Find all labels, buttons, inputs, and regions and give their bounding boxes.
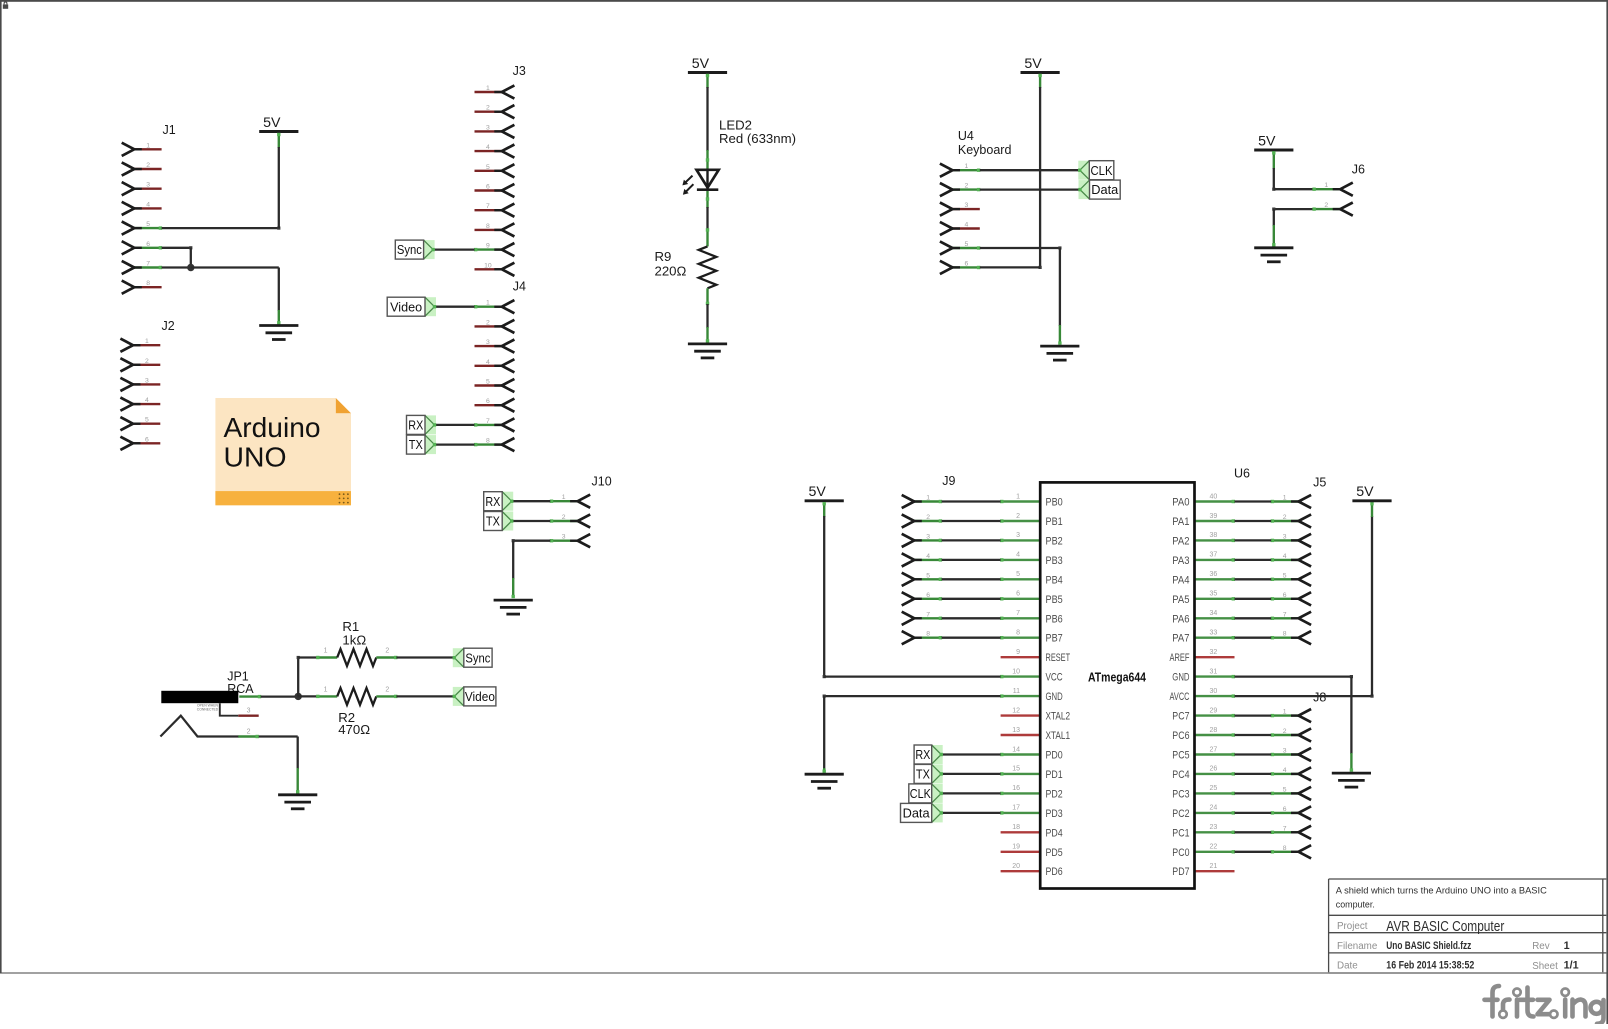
svg-text:Date: Date: [1337, 961, 1358, 972]
svg-text:U4: U4: [958, 129, 974, 143]
svg-text:6: 6: [1283, 592, 1287, 599]
svg-text:470Ω: 470Ω: [338, 722, 370, 737]
svg-text:Data: Data: [903, 806, 931, 821]
svg-text:14: 14: [1012, 746, 1020, 753]
svg-text:4: 4: [1283, 767, 1287, 774]
svg-text:4: 4: [926, 553, 930, 560]
svg-text:4: 4: [486, 144, 490, 151]
svg-text:2: 2: [926, 514, 930, 521]
svg-text:3: 3: [247, 708, 251, 715]
svg-text:6: 6: [146, 241, 150, 248]
svg-text:21: 21: [1210, 863, 1218, 870]
svg-text:1: 1: [1283, 709, 1287, 716]
svg-text:17: 17: [1012, 805, 1020, 812]
svg-text:3: 3: [926, 533, 930, 540]
svg-text:Video: Video: [390, 299, 422, 314]
svg-text:Red (633nm): Red (633nm): [719, 131, 796, 146]
svg-text:8: 8: [1283, 845, 1287, 852]
svg-text:5V: 5V: [692, 56, 710, 72]
svg-text:UNO: UNO: [224, 442, 287, 473]
svg-text:6: 6: [1016, 591, 1020, 598]
svg-text:PA7: PA7: [1172, 633, 1189, 645]
svg-text:PB5: PB5: [1046, 594, 1063, 606]
svg-text:1: 1: [145, 338, 149, 345]
svg-text:1: 1: [926, 495, 930, 502]
svg-text:Video: Video: [465, 689, 495, 704]
svg-text:13: 13: [1012, 727, 1020, 734]
svg-text:8: 8: [1016, 630, 1020, 637]
svg-text:1: 1: [486, 300, 490, 307]
svg-text:5V: 5V: [1356, 484, 1374, 500]
svg-text:PD4: PD4: [1046, 827, 1063, 839]
svg-text:2: 2: [385, 686, 389, 693]
svg-text:5: 5: [486, 164, 490, 171]
svg-text:RX: RX: [915, 747, 930, 762]
svg-text:PD5: PD5: [1046, 847, 1063, 859]
svg-text:3: 3: [486, 339, 490, 346]
svg-text:34: 34: [1210, 610, 1218, 617]
svg-text:35: 35: [1210, 591, 1218, 598]
svg-text:7: 7: [486, 203, 490, 210]
svg-text:5V: 5V: [809, 484, 827, 500]
svg-text:3: 3: [146, 182, 150, 189]
svg-text:25: 25: [1210, 785, 1218, 792]
svg-text:PD1: PD1: [1046, 769, 1063, 781]
svg-text:12: 12: [1012, 707, 1020, 714]
svg-text:AVR BASIC Computer: AVR BASIC Computer: [1386, 919, 1504, 935]
svg-text:32: 32: [1210, 649, 1218, 656]
svg-text:2: 2: [145, 358, 149, 365]
svg-text:24: 24: [1210, 805, 1218, 812]
svg-text:RX: RX: [408, 418, 423, 433]
svg-text:PC4: PC4: [1172, 769, 1189, 781]
svg-text:PA3: PA3: [1172, 555, 1189, 567]
svg-text:Project: Project: [1337, 921, 1368, 932]
svg-text:PD0: PD0: [1046, 750, 1063, 762]
svg-text:8: 8: [486, 223, 490, 230]
svg-text:8: 8: [926, 631, 930, 638]
svg-text:ATmega644: ATmega644: [1088, 671, 1146, 685]
svg-text:1: 1: [562, 494, 566, 501]
svg-text:5: 5: [1283, 786, 1287, 793]
svg-text:PA0: PA0: [1172, 497, 1189, 509]
svg-text:1: 1: [146, 142, 150, 149]
svg-text:11: 11: [1013, 688, 1020, 695]
svg-text:J5: J5: [1313, 475, 1326, 489]
svg-text:23: 23: [1210, 824, 1218, 831]
svg-text:PC6: PC6: [1172, 730, 1189, 742]
svg-text:5V: 5V: [1024, 56, 1042, 72]
svg-text:AVCC: AVCC: [1170, 691, 1190, 703]
svg-text:2: 2: [486, 105, 490, 112]
svg-text:J6: J6: [1352, 163, 1365, 177]
svg-text:5V: 5V: [263, 115, 281, 131]
svg-text:1: 1: [1283, 495, 1287, 502]
svg-text:PB3: PB3: [1046, 555, 1063, 567]
svg-text:PD6: PD6: [1046, 866, 1063, 878]
svg-text:U6: U6: [1234, 467, 1250, 481]
svg-text:6: 6: [486, 398, 490, 405]
svg-text:PB6: PB6: [1046, 613, 1063, 625]
svg-text:Sync: Sync: [397, 242, 422, 257]
svg-text:J4: J4: [513, 280, 526, 294]
svg-text:PC0: PC0: [1172, 847, 1189, 859]
svg-text:PD3: PD3: [1046, 808, 1063, 820]
svg-text:7: 7: [1283, 611, 1287, 618]
svg-text:3: 3: [965, 202, 969, 209]
svg-text:1: 1: [324, 648, 328, 655]
svg-text:36: 36: [1210, 571, 1218, 578]
svg-text:computer.: computer.: [1336, 900, 1375, 910]
svg-text:RX: RX: [485, 494, 500, 509]
svg-text:PC3: PC3: [1172, 788, 1189, 800]
svg-text:5V: 5V: [1258, 133, 1276, 149]
svg-text:7: 7: [1283, 825, 1287, 832]
svg-text:38: 38: [1210, 532, 1218, 539]
svg-text:6: 6: [145, 436, 149, 443]
svg-text:6: 6: [486, 184, 490, 191]
svg-text:1: 1: [1016, 493, 1020, 500]
svg-text:GND: GND: [1172, 672, 1189, 684]
svg-text:TX: TX: [409, 437, 423, 452]
svg-text:5: 5: [926, 572, 930, 579]
svg-text:2: 2: [486, 319, 490, 326]
svg-text:CONNECTED: CONNECTED: [197, 708, 219, 712]
svg-text:R9: R9: [655, 249, 672, 264]
svg-text:18: 18: [1012, 824, 1020, 831]
svg-text:PB2: PB2: [1046, 535, 1063, 547]
svg-text:5: 5: [486, 379, 490, 386]
svg-text:Keyboard: Keyboard: [958, 143, 1012, 157]
svg-text:2: 2: [247, 728, 251, 735]
svg-text:7: 7: [146, 261, 150, 268]
svg-text:TX: TX: [916, 767, 930, 782]
svg-text:10: 10: [484, 262, 492, 269]
svg-text:4: 4: [965, 222, 969, 229]
svg-text:30: 30: [1210, 688, 1218, 695]
svg-text:2: 2: [965, 183, 969, 190]
svg-text:PC2: PC2: [1172, 808, 1189, 820]
svg-text:PB7: PB7: [1046, 633, 1063, 645]
svg-text:7: 7: [486, 418, 490, 425]
svg-text:16 Feb 2014 15:38:52: 16 Feb 2014 15:38:52: [1386, 960, 1474, 972]
svg-text:2: 2: [146, 162, 150, 169]
svg-text:5: 5: [1283, 572, 1287, 579]
svg-text:2: 2: [562, 514, 566, 521]
svg-text:Filename: Filename: [1337, 941, 1378, 952]
svg-text:29: 29: [1210, 707, 1218, 714]
svg-text:PC5: PC5: [1172, 750, 1189, 762]
svg-text:16: 16: [1012, 785, 1020, 792]
svg-text:8: 8: [486, 438, 490, 445]
svg-text:TX: TX: [486, 514, 500, 529]
svg-text:PA6: PA6: [1172, 613, 1189, 625]
svg-text:VCC: VCC: [1046, 672, 1063, 684]
svg-text:19: 19: [1012, 844, 1020, 851]
svg-text:26: 26: [1210, 766, 1218, 773]
svg-text:1: 1: [1324, 182, 1328, 189]
svg-text:PB0: PB0: [1046, 497, 1063, 509]
svg-text:5: 5: [1016, 571, 1020, 578]
svg-text:3: 3: [1283, 748, 1287, 755]
svg-text:RESET: RESET: [1046, 652, 1071, 664]
svg-text:2: 2: [1324, 202, 1328, 209]
svg-text:28: 28: [1210, 727, 1218, 734]
svg-text:4: 4: [146, 201, 150, 208]
svg-text:3: 3: [145, 377, 149, 384]
svg-text:AREF: AREF: [1170, 652, 1190, 664]
svg-text:39: 39: [1210, 513, 1218, 520]
svg-text:37: 37: [1210, 552, 1218, 559]
svg-text:20: 20: [1012, 863, 1020, 870]
svg-text:Rev: Rev: [1532, 941, 1550, 952]
svg-text:7: 7: [1016, 610, 1020, 617]
svg-text:2: 2: [1016, 513, 1020, 520]
svg-text:J10: J10: [592, 474, 612, 488]
svg-text:3: 3: [562, 534, 566, 541]
svg-text:PC1: PC1: [1172, 827, 1189, 839]
svg-text:15: 15: [1012, 766, 1020, 773]
svg-text:5: 5: [145, 417, 149, 424]
svg-text:220Ω: 220Ω: [655, 264, 687, 279]
svg-text:9: 9: [1016, 649, 1020, 656]
svg-text:22: 22: [1210, 844, 1218, 851]
svg-text:2: 2: [1283, 728, 1287, 735]
svg-text:XTAL2: XTAL2: [1046, 711, 1071, 723]
svg-text:27: 27: [1210, 746, 1218, 753]
svg-text:PA2: PA2: [1172, 535, 1189, 547]
svg-text:1kΩ: 1kΩ: [342, 632, 366, 647]
svg-text:Sync: Sync: [465, 650, 490, 665]
svg-text:1/1: 1/1: [1564, 960, 1579, 972]
svg-text:4: 4: [145, 397, 149, 404]
svg-text:8: 8: [1283, 631, 1287, 638]
svg-text:6: 6: [926, 592, 930, 599]
svg-text:PA5: PA5: [1172, 594, 1189, 606]
svg-text:33: 33: [1210, 630, 1218, 637]
svg-text:3: 3: [486, 124, 490, 131]
svg-text:3: 3: [1283, 533, 1287, 540]
svg-text:2: 2: [1283, 514, 1287, 521]
svg-text:CLK: CLK: [1091, 163, 1113, 178]
svg-text:J9: J9: [942, 474, 955, 488]
svg-text:XTAL1: XTAL1: [1046, 730, 1071, 742]
svg-text:PB1: PB1: [1046, 516, 1063, 528]
svg-text:CLK: CLK: [910, 786, 931, 801]
svg-text:3: 3: [1016, 532, 1020, 539]
svg-text:4: 4: [486, 359, 490, 366]
svg-text:1: 1: [486, 85, 490, 92]
svg-text:PA4: PA4: [1172, 574, 1189, 586]
svg-text:PD2: PD2: [1046, 788, 1063, 800]
svg-text:GND: GND: [1046, 691, 1063, 703]
svg-text:40: 40: [1210, 493, 1218, 500]
svg-text:10: 10: [1012, 668, 1020, 675]
svg-text:J1: J1: [163, 123, 176, 137]
svg-text:Sheet: Sheet: [1532, 961, 1558, 972]
svg-text:Uno BASIC Shield.fzz: Uno BASIC Shield.fzz: [1386, 940, 1471, 952]
svg-text:1: 1: [324, 686, 328, 693]
svg-text:J8: J8: [1313, 691, 1326, 705]
svg-text:J3: J3: [513, 64, 526, 78]
svg-text:6: 6: [1283, 806, 1287, 813]
svg-text:1: 1: [1564, 940, 1570, 952]
svg-text:J2: J2: [162, 319, 175, 333]
svg-text:4: 4: [1283, 553, 1287, 560]
svg-text:A shield which turns the Ardui: A shield which turns the Arduino UNO int…: [1336, 885, 1548, 895]
svg-text:8: 8: [146, 280, 150, 287]
svg-text:31: 31: [1210, 668, 1218, 675]
svg-text:5: 5: [146, 221, 150, 228]
svg-text:6: 6: [965, 260, 969, 267]
svg-text:1: 1: [965, 163, 969, 170]
svg-text:Data: Data: [1091, 182, 1119, 197]
svg-text:4: 4: [1016, 552, 1020, 559]
svg-text:PC7: PC7: [1172, 711, 1189, 723]
svg-text:PA1: PA1: [1172, 516, 1189, 528]
svg-text:7: 7: [926, 611, 930, 618]
svg-text:2: 2: [385, 648, 389, 655]
svg-text:9: 9: [486, 243, 490, 250]
svg-text:PB4: PB4: [1046, 574, 1063, 586]
svg-text:5: 5: [965, 241, 969, 248]
svg-text:PD7: PD7: [1172, 866, 1189, 878]
svg-text:Arduino: Arduino: [224, 412, 321, 443]
